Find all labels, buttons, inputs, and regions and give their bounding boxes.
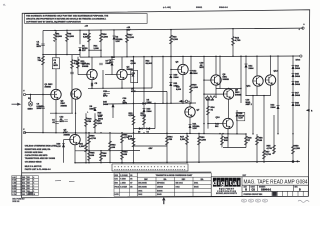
svg-text:D664: D664 — [249, 67, 255, 70]
svg-text:D664: D664 — [295, 75, 301, 78]
capacitor C5 — [90, 83, 92, 87]
svg-text:IN645: IN645 — [157, 193, 162, 196]
resistor R61 — [121, 134, 124, 143]
svg-text:◆ L-08 |: ◆ L-08 | — [162, 6, 171, 9]
resistor R47 — [186, 136, 189, 145]
resistor R44 — [232, 37, 235, 46]
wire x163 — [162, 57, 164, 104]
wire x80 lower — [79, 51, 81, 57]
wire y91.5 — [134, 90, 168, 92]
wire x253 — [252, 96, 254, 134]
edge connector bar — [112, 164, 188, 171]
transistor Q3 — [87, 69, 97, 79]
svg-text:G084-0-1: G084-0-1 — [261, 189, 272, 192]
wire x155 — [154, 103, 156, 128]
wire T4 collector y74.5 — [127, 74, 134, 76]
ground terminal left — [23, 131, 25, 133]
svg-text:1,250: 1,250 — [295, 148, 301, 150]
resistor R6 — [71, 60, 74, 69]
diode D14 — [245, 64, 248, 68]
svg-text:3009B: 3009B — [64, 134, 71, 136]
resistor R26 — [85, 118, 88, 127]
wire x270.5 Q12 emitter — [270, 85, 272, 95]
svg-text:AMP 2: AMP 2 — [246, 103, 253, 106]
svg-text:D664: D664 — [295, 104, 301, 107]
conversion chart — [137, 173, 211, 196]
wire +10V bus — [43, 28, 303, 30]
wire x110 lower — [109, 133, 111, 163]
wire y113 — [50, 112, 71, 114]
svg-text:MLR IS A MOTOR: MLR IS A MOTOR — [25, 165, 42, 168]
svg-text:CIRCUITS ARE PROPRIETARY IN NA: CIRCUITS ARE PROPRIETARY IN NATURE AND S… — [26, 18, 107, 21]
wire x171 — [170, 30, 172, 104]
svg-text:1151: 1151 — [22, 185, 26, 187]
wire x72 — [71, 55, 73, 114]
diode D3 — [139, 127, 142, 130]
svg-text:a: a — [233, 180, 237, 187]
wire x233 upper — [232, 29, 234, 57]
svg-text:1,100: 1,100 — [129, 37, 135, 39]
transistor Q6 — [178, 64, 188, 74]
svg-text:6,200: 6,200 — [141, 115, 147, 117]
svg-text:3.9V: 3.9V — [193, 128, 198, 130]
wire x204 long — [203, 56, 205, 134]
svg-text:TRANSISTORS ARE DEC 3639B: TRANSISTORS ARE DEC 3639B — [25, 157, 56, 160]
diode D4 — [147, 127, 150, 130]
svg-text:D664: D664 — [147, 101, 153, 104]
wire T11 T12 emitter y95.5 — [246, 95, 271, 97]
svg-text:D664: D664 — [174, 76, 180, 79]
wire x190 Q7 collector — [189, 103, 191, 107]
resistor R63 — [121, 151, 124, 160]
zener D2 — [113, 36, 116, 40]
wire T9 collector y88.5 — [216, 88, 241, 90]
svg-text:C O R P O R A T I O N: C O R P O R A T I O N — [217, 190, 236, 193]
capacitor C13 — [64, 119, 68, 121]
resistor R2 — [42, 56, 45, 65]
svg-text:TRANSISTOR & DIODE CONVERSION: TRANSISTOR & DIODE CONVERSION CHART — [156, 174, 194, 177]
resistor R5 — [66, 33, 69, 42]
diode D12 — [190, 71, 193, 75]
svg-text:IN645: IN645 — [194, 186, 199, 189]
wire x183 Q6 emitter — [182, 75, 184, 103]
svg-text:MFD: MFD — [103, 96, 108, 98]
transistor Q8 — [211, 75, 221, 85]
potentiometer R1 — [28, 102, 33, 107]
wire x122 Q4 collector — [121, 57, 123, 69]
svg-text:.01: .01 — [132, 76, 135, 78]
svg-text:RESISTORS ARE 1/4W; 5%: RESISTORS ARE 1/4W; 5% — [25, 148, 51, 151]
zener D20 — [236, 113, 239, 117]
wire x101 lower — [100, 151, 102, 163]
wire x92 Q3 emitter — [91, 80, 93, 89]
bottom strip divider line — [22, 171, 212, 174]
svg-text:9/8: 9/8 — [130, 186, 132, 188]
resistor R31 — [85, 143, 88, 152]
wire x95 — [94, 113, 96, 133]
svg-text:DEC3009B: DEC3009B — [138, 183, 147, 185]
svg-text:3009B: 3009B — [235, 94, 242, 96]
wire T8 base y80 — [204, 79, 211, 81]
wire x127 — [126, 30, 128, 57]
capacitor C8 — [99, 62, 103, 64]
wire x152 — [151, 57, 153, 89]
test point arrow terminal — [185, 100, 187, 102]
svg-text:D664: D664 — [295, 67, 301, 70]
junction dots — [54, 30, 55, 31]
ECO table pencil blob — [28, 192, 33, 195]
resistor R34 — [207, 106, 210, 115]
svg-text:1,800: 1,800 — [103, 36, 109, 38]
wire x86 mid — [85, 113, 87, 133]
svg-text:10: 10 — [33, 194, 35, 196]
svg-text:D664: D664 — [90, 107, 96, 110]
terminal +10V — [302, 27, 304, 29]
capacitor C9 — [111, 57, 115, 59]
wire x78 lower — [77, 57, 79, 75]
resistor R17 — [126, 34, 129, 43]
svg-text:MFD: MFD — [37, 46, 42, 48]
wire x264 long — [263, 96, 265, 163]
svg-text:MPS6534: MPS6534 — [157, 182, 164, 185]
wire x246 lower — [245, 134, 247, 148]
svg-text:68,000: 68,000 — [146, 63, 153, 65]
transistor Q11 — [253, 76, 263, 86]
svg-text:1,000: 1,000 — [94, 48, 100, 50]
svg-text:3009B: 3009B — [223, 79, 230, 81]
svg-text:6,200: 6,200 — [173, 39, 179, 41]
svg-text:D664: D664 — [174, 84, 180, 87]
svg-text:B 121: B 121 — [12, 180, 16, 182]
wire T9 base y94 — [204, 93, 224, 95]
transistor Q1 — [51, 89, 61, 99]
svg-text:1,800: 1,800 — [69, 36, 75, 38]
svg-text:D664: D664 — [138, 189, 142, 192]
input terminal J1 — [23, 93, 25, 95]
resistor R64 — [166, 136, 169, 145]
wire x75 Q5 emitter — [74, 145, 76, 163]
wire arrow terminal y101 — [188, 100, 190, 102]
wire x86 lower — [85, 133, 87, 163]
resistor R51 (boxed) — [237, 112, 245, 120]
wire ground bus y133 — [25, 133, 247, 134]
svg-text:MFD: MFD — [200, 67, 205, 69]
ECO revision table — [12, 176, 39, 196]
diode D16 — [292, 82, 295, 86]
svg-text:1225: 1225 — [22, 191, 26, 193]
transistor Q4 — [117, 69, 127, 79]
wire x220 — [219, 56, 221, 88]
svg-text:THIS SCHEMATIC IS FURNISHED ON: THIS SCHEMATIC IS FURNISHED ONLY FOR TES… — [26, 15, 109, 18]
wire x133.5 long — [133, 57, 135, 163]
svg-text:1,500: 1,500 — [79, 146, 85, 148]
svg-text:B: B — [299, 189, 301, 192]
resistor R21 — [77, 59, 80, 68]
title block frame — [211, 177, 308, 197]
svg-text:1MEG: 1MEG — [28, 109, 34, 111]
svg-text:4,700: 4,700 — [266, 153, 272, 156]
wire y50 — [89, 49, 101, 51]
svg-text:COPYRIGHT 1967 BY DIGITAL EQUI: COPYRIGHT 1967 BY DIGITAL EQUIPMENT CORP… — [26, 21, 81, 24]
svg-text:6,800: 6,800 — [97, 123, 103, 125]
resistor R66 — [100, 152, 103, 161]
svg-text:100V: 100V — [37, 108, 42, 110]
wire x216 Q8 emitter — [215, 85, 217, 97]
transistor Q12 — [265, 75, 275, 85]
resistor R57 — [263, 150, 266, 159]
svg-text:6,800: 6,800 — [83, 36, 89, 38]
wire x190 Q7 emitter — [189, 118, 191, 135]
resistor R39 — [205, 96, 215, 99]
transistor Q9 — [223, 89, 233, 99]
svg-text:1188: 1188 — [22, 188, 26, 190]
diode D19 — [62, 144, 65, 148]
pencil dash marks — [55, 180, 61, 182]
diode D8 — [94, 108, 97, 112]
resistor R49 — [221, 136, 224, 145]
svg-text:4,700: 4,700 — [91, 137, 97, 140]
resistor R23 — [132, 116, 135, 125]
wire x274 lower — [273, 115, 275, 154]
capacitor C15 — [106, 91, 110, 93]
svg-text:00001: 00001 — [196, 7, 203, 9]
svg-text:i: i — [226, 180, 228, 187]
svg-text:1,000: 1,000 — [128, 138, 134, 140]
svg-text:-15V: -15V — [148, 148, 153, 150]
svg-text:CS: CS — [252, 189, 256, 192]
resistor R27 — [143, 116, 146, 125]
svg-text:9: 9 — [33, 191, 34, 193]
svg-text:3009B: 3009B — [61, 105, 68, 107]
wire x222 lower — [221, 134, 223, 148]
wire x216 Q8 collector — [215, 56, 217, 75]
diode D15 — [292, 74, 295, 78]
printed circuit rev filled cell — [272, 192, 276, 196]
svg-text:UNLESS OTHERWISE INDICATED:: UNLESS OTHERWISE INDICATED: — [25, 145, 58, 148]
svg-text:9/7: 9/7 — [130, 183, 132, 185]
wire x228 Q10 emitter — [227, 129, 229, 148]
wire T6 base y69.5 — [171, 69, 178, 71]
svg-text:MRG: MRG — [296, 59, 301, 61]
resistor R33 — [170, 35, 173, 44]
svg-text:MFD: MFD — [53, 65, 58, 67]
svg-text:l: l — [238, 180, 240, 187]
wire x114 upper — [113, 30, 115, 57]
svg-text:D664: D664 — [194, 182, 198, 185]
wire x112 diode branch — [111, 57, 113, 75]
wire -15V rail — [134, 145, 168, 147]
digital logo — [213, 178, 217, 187]
svg-text:8.2V: 8.2V — [239, 118, 244, 120]
svg-text:2N3639: 2N3639 — [157, 187, 163, 189]
wire x101 upper — [100, 30, 102, 57]
svg-text:MAG. TAPE READ AMP G084: MAG. TAPE READ AMP G084 — [244, 180, 308, 186]
wire x144 upper — [143, 57, 145, 129]
resistor R58 — [256, 136, 259, 145]
svg-text:6,800: 6,800 — [176, 89, 182, 91]
svg-text:C 309: C 309 — [12, 183, 16, 185]
wire T4 base y74.5 — [105, 74, 117, 76]
pencil arrow left margin — [12, 103, 19, 105]
diode D11 — [169, 83, 172, 87]
svg-text:5: 5 — [33, 180, 34, 182]
sheet border frame — [22, 10, 310, 198]
svg-text:D662: D662 — [138, 194, 142, 196]
wire left rail x43 — [42, 31, 44, 133]
svg-text:3.9V: 3.9V — [116, 41, 121, 43]
capacitor C3 — [70, 71, 74, 73]
svg-text:D4: D4 — [147, 130, 149, 133]
svg-text:8: 8 — [33, 188, 34, 190]
svg-text:6,200: 6,200 — [129, 115, 135, 117]
wire x229 Q9-Q10 link — [228, 99, 230, 118]
wire x167 lower — [166, 92, 168, 163]
resistor R48 — [245, 136, 248, 145]
svg-text:12V: 12V — [82, 50, 86, 52]
svg-text:R39 220: R39 220 — [206, 100, 215, 102]
resistor R4 — [54, 33, 57, 42]
wire x270.5 Q12 collector — [270, 56, 272, 75]
wire y147.5 — [223, 147, 246, 149]
resistor R55 — [273, 145, 276, 154]
resistor R52 — [198, 136, 201, 145]
resistor R13 — [132, 138, 135, 147]
svg-text:1,000: 1,000 — [193, 87, 199, 89]
transistor Q5 — [70, 134, 80, 144]
terminal MRG — [300, 55, 302, 57]
wire x191 — [190, 56, 192, 103]
svg-text:IN3606: IN3606 — [157, 190, 163, 192]
svg-text:DRB 102: DRB 102 — [12, 201, 19, 203]
wire x187 lower — [186, 134, 188, 163]
wire x80 upper — [79, 30, 81, 44]
wire x103 — [102, 70, 104, 88]
wire x257 lower — [256, 134, 258, 162]
svg-text:PRINTED CIRCUIT REV.: PRINTED CIRCUIT REV. — [244, 194, 264, 196]
wire bus y103.5 — [105, 103, 196, 104]
wire y150.7 — [75, 150, 140, 152]
svg-text:D664: D664 — [98, 117, 104, 120]
svg-text:D664: D664 — [271, 106, 277, 109]
wire bottom bus y162.5 — [75, 161, 300, 162]
wire T10 base y123.5 — [208, 123, 223, 125]
svg-text:DIST: DIST — [243, 175, 247, 177]
wire mid bus — [80, 56, 300, 57]
svg-text:F. KING: F. KING — [120, 179, 126, 181]
capacitor C11 (boxed) — [131, 71, 138, 83]
svg-text:DEC3639B: DEC3639B — [138, 187, 147, 189]
wire input y94.5 — [26, 94, 51, 96]
heavy junction blob — [292, 160, 295, 163]
capacitor C6 electrolytic — [41, 106, 45, 108]
wire x278 long — [277, 56, 279, 134]
svg-text:7: 7 — [33, 185, 34, 187]
svg-text:J. BRID: J. BRID — [120, 183, 126, 185]
wire x293 long — [292, 56, 294, 161]
resistor R28 — [94, 119, 97, 128]
wire x56 upper — [55, 30, 57, 57]
svg-text:PARTS LIST A-PL-G084-0-0: PARTS LIST A-PL-G084-0-0 — [25, 168, 52, 171]
diode D23 — [143, 109, 146, 113]
diode D22 — [277, 106, 280, 110]
wire x241 — [240, 56, 242, 103]
wire x183 Q6 collector — [182, 56, 184, 64]
svg-text:6,800: 6,800 — [57, 36, 63, 38]
wire x56 Q1 column — [55, 69, 57, 90]
wire x89 — [88, 30, 90, 57]
svg-text:6: 6 — [33, 183, 34, 185]
wire x208 upper — [207, 97, 209, 128]
wire x122 lower — [121, 133, 123, 163]
resistor R59 — [292, 145, 295, 154]
svg-text:D664: D664 — [295, 94, 301, 97]
svg-text:D664: D664 — [193, 72, 199, 75]
wire x75.5 Q2-Q5 column — [75, 99, 77, 134]
svg-text:CAPACITORS ARE MFD: CAPACITORS ARE MFD — [25, 154, 48, 157]
resistor R16 — [100, 33, 103, 42]
resistor R65 — [88, 152, 91, 161]
capacitor C4 — [55, 121, 59, 123]
wire T5 base y139.5 — [64, 139, 70, 141]
wire x246 upper — [245, 56, 247, 95]
capacitor C2 (boxed) — [52, 58, 59, 69]
svg-text:i: i — [218, 180, 220, 187]
wire y128.5 — [134, 128, 156, 130]
diode D25 — [112, 104, 115, 108]
proprietary note box — [25, 14, 148, 24]
signature table — [114, 173, 137, 196]
svg-text:MFD: MFD — [123, 103, 128, 105]
svg-text:0084-0-0: 0084-0-0 — [219, 6, 229, 9]
svg-text:D664: D664 — [295, 83, 301, 86]
zener D21 — [189, 125, 192, 129]
svg-text:1262: 1262 — [22, 194, 26, 196]
right margin arrow — [306, 109, 310, 112]
wire emitter row y88 — [88, 87, 152, 89]
svg-text:1,200: 1,200 — [201, 139, 207, 141]
svg-text:4,000: 4,000 — [131, 62, 137, 65]
svg-text:1,500: 1,500 — [180, 139, 186, 141]
svg-text:05-: 05- — [3, 5, 6, 7]
resistor R60 — [88, 135, 91, 144]
resistor R62 — [109, 141, 112, 150]
wire y54 — [43, 54, 80, 56]
transistor Q7 — [185, 107, 195, 117]
wire x257 Q11 emitter — [256, 86, 258, 95]
wire x67 — [66, 30, 68, 54]
svg-text:9/6: 9/6 — [130, 175, 132, 177]
svg-text:6,800: 6,800 — [81, 63, 87, 65]
transistor Q2 — [71, 89, 81, 99]
svg-text:D3: D3 — [138, 131, 140, 133]
wire x92 Q3 collector — [91, 57, 93, 70]
wire x89 lower — [88, 133, 90, 163]
wire x199 lower — [198, 134, 200, 162]
diode D18 — [292, 103, 295, 107]
wire x63.5 diode branch — [63, 140, 65, 163]
wire x122 Q4 emitter — [121, 80, 123, 88]
pencil up arrow — [162, 197, 165, 200]
svg-text:g: g — [221, 180, 225, 187]
svg-text:B: B — [245, 189, 247, 192]
diode D5 — [142, 102, 145, 105]
wire T3 base y74.6 — [78, 74, 87, 76]
svg-text:MB D664: MB D664 — [176, 182, 183, 185]
svg-text:9/6: 9/6 — [130, 179, 132, 181]
svg-text:d: d — [213, 180, 217, 187]
pencil scribbles bottom right — [242, 199, 310, 202]
svg-text:3009B: 3009B — [45, 86, 52, 88]
